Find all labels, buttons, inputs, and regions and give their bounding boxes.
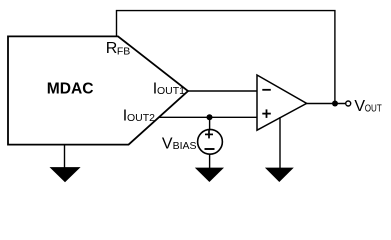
op-amp inverting input marker: [262, 89, 271, 91]
MDAC U1 (multiplying DAC block): [8, 36, 188, 144]
svg-text:V: V: [162, 135, 173, 152]
op-amp noninverting input marker: [262, 113, 271, 115]
VBIAS top stem wire: [209, 117, 211, 130]
svg-text:R: R: [106, 40, 118, 57]
svg-text:FB: FB: [117, 45, 130, 57]
feedback wire R_FB to output node: [117, 11, 335, 104]
svg-text:OUT1: OUT1: [157, 85, 185, 97]
voltage source VBIAS: [198, 129, 223, 154]
VBIAS minus marker: [205, 148, 215, 150]
output junction dot: [332, 101, 338, 107]
VBIAS bottom stem wire: [209, 154, 211, 169]
wire IOUT2 to op-amp noninverting input: [159, 116, 258, 118]
VOUT terminal (open circle): [346, 101, 351, 106]
svg-text:BIAS: BIAS: [173, 140, 197, 152]
wire IOUT1 to op-amp inverting input: [187, 90, 258, 92]
VBIAS plus marker: [205, 133, 213, 135]
ground under MDAC: [50, 167, 81, 182]
op-amp ground stem wire: [279, 117, 281, 169]
svg-text:OUT: OUT: [365, 102, 382, 114]
svg-text:OUT2: OUT2: [127, 112, 155, 124]
junction dot IOUT2 / VBIAS node: [207, 114, 213, 120]
svg-text:MDAC: MDAC: [47, 81, 94, 98]
op-amp output wire: [306, 103, 346, 105]
ground under op-amp: [265, 168, 294, 182]
svg-text:V: V: [354, 98, 365, 115]
MDAC ground stem wire: [64, 145, 66, 169]
op-amp U2: [257, 75, 307, 130]
ground under VBIAS: [195, 168, 224, 182]
